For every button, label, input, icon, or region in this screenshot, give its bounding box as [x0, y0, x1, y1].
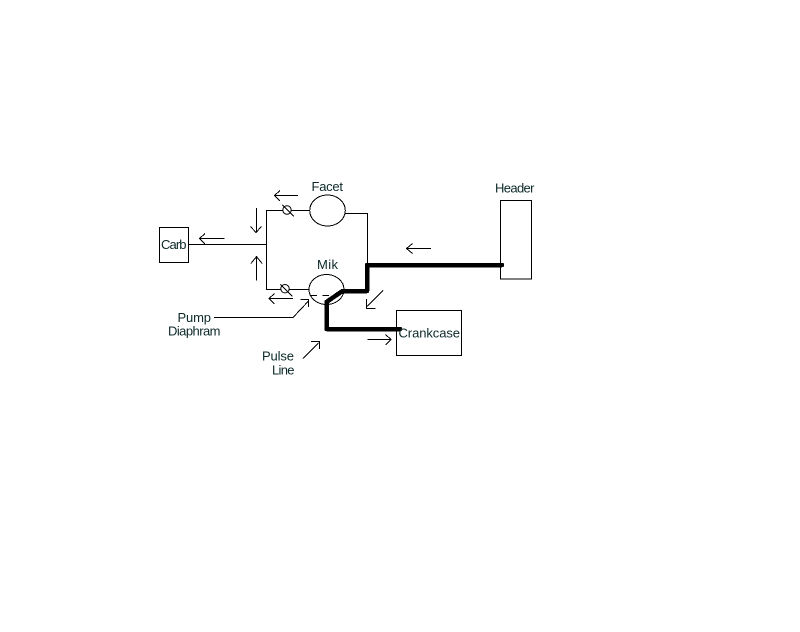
thick fuel line Header to Mik pump to Crankcase: [327, 265, 503, 329]
leader arrow pump-diaphram pointer: [214, 300, 309, 318]
wire loop top horizontal: [266, 210, 310, 212]
wire loop left vertical: [266, 210, 268, 290]
arrow flow right into crankcase: [368, 335, 392, 346]
svg-text:Crankcase: Crankcase: [399, 326, 461, 341]
arrow flow left from header: [407, 244, 432, 254]
arrow flow left above valve V1: [275, 191, 299, 202]
svg-text:Facet: Facet: [312, 179, 344, 194]
wire facet outlet to right drop: [345, 214, 368, 264]
svg-text:Carb: Carb: [161, 237, 187, 252]
pump diaphragm dashed line: [311, 295, 329, 297]
arrow up into loop junction: [251, 257, 262, 281]
wire loop bottom horizontal: [266, 289, 310, 291]
box Carb: [160, 228, 189, 263]
pump Mik: [309, 275, 344, 305]
check valve V1: [282, 205, 294, 217]
arrow down into loop junction: [251, 208, 262, 233]
svg-text:Line: Line: [272, 363, 295, 378]
arrow flow left below valve V2: [269, 294, 293, 305]
arrow flow-to-carb (left): [200, 234, 225, 245]
svg-text:Header: Header: [495, 181, 535, 196]
box Crankcase: [397, 311, 462, 356]
svg-text:Mik: Mik: [317, 257, 339, 272]
box Header: [501, 201, 532, 280]
arrow pulse-line pointer: [303, 342, 320, 359]
arrow down-left into Mik: [367, 291, 384, 309]
svg-text:Pulse: Pulse: [262, 349, 294, 364]
check valve V2: [280, 284, 292, 296]
svg-text:Diaphram: Diaphram: [168, 324, 221, 339]
pump Facet: [310, 195, 346, 226]
wire carb feed line: [189, 244, 267, 246]
